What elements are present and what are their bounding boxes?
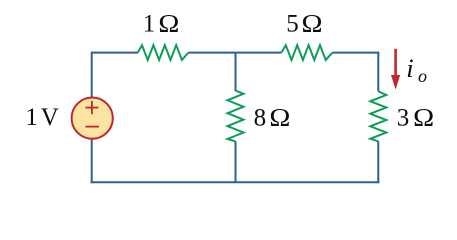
svg-text:Ω: Ω bbox=[413, 103, 434, 131]
svg-text:i: i bbox=[406, 53, 413, 83]
svg-text:V: V bbox=[41, 104, 59, 131]
svg-text:3: 3 bbox=[397, 104, 410, 131]
svg-text:5: 5 bbox=[286, 11, 299, 38]
svg-text:Ω: Ω bbox=[302, 9, 323, 37]
svg-text:Ω: Ω bbox=[269, 103, 290, 131]
svg-text:o: o bbox=[418, 66, 427, 86]
svg-text:8: 8 bbox=[254, 104, 267, 131]
svg-text:1: 1 bbox=[25, 104, 38, 131]
svg-text:1: 1 bbox=[143, 11, 156, 38]
svg-text:Ω: Ω bbox=[158, 9, 179, 37]
